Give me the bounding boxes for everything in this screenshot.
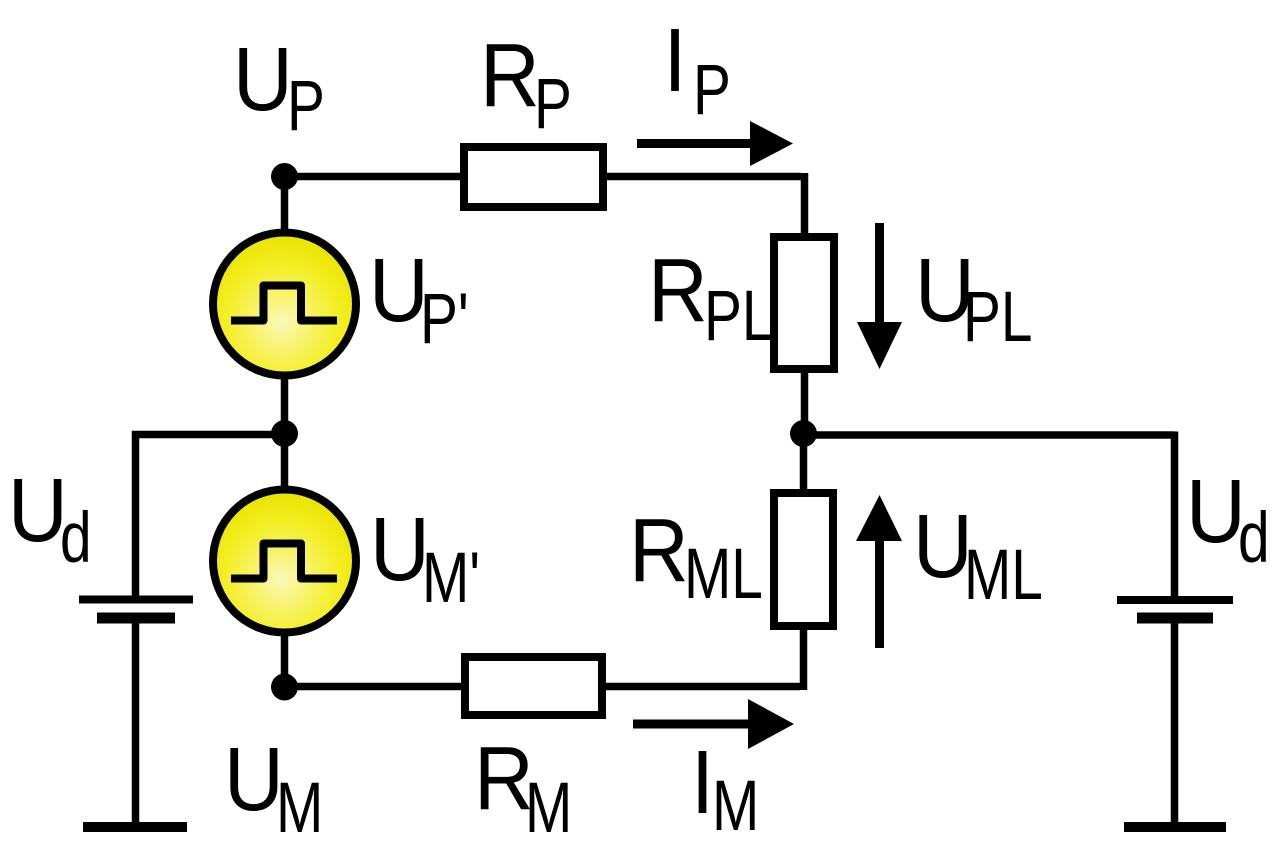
resistor RM [465, 657, 602, 715]
wire node Up to source UP' [281, 177, 289, 236]
arrow IP [637, 139, 755, 148]
svg-text:R: R [629, 501, 689, 601]
svg-text:PL: PL [963, 277, 1032, 357]
wire node B to right rail [804, 432, 1175, 601]
svg-text:M: M [525, 768, 572, 848]
resistor RP [464, 147, 603, 207]
svg-text:U: U [224, 730, 284, 830]
battery left short plate [97, 613, 175, 624]
label UP' [369, 241, 429, 341]
pulse symbol UP' [231, 286, 337, 321]
svg-text:U: U [233, 30, 293, 130]
svg-text:PL: PL [704, 276, 773, 356]
svg-text:U: U [8, 461, 68, 561]
label RPL [648, 241, 708, 341]
label UPL [915, 241, 975, 341]
svg-text:P': P' [420, 279, 469, 359]
source UP' [213, 233, 356, 376]
wire source UP' to node A [281, 374, 289, 433]
battery left bottom plate [83, 822, 187, 832]
label IM [691, 733, 714, 833]
svg-text:P: P [693, 50, 731, 130]
label UM' [370, 500, 430, 600]
label UM [224, 730, 284, 830]
node UP [271, 163, 298, 190]
battery right bottom plate [1124, 822, 1226, 832]
arrow UPL down [875, 223, 884, 335]
label RML [629, 501, 689, 601]
wire RML to node B [800, 433, 808, 493]
svg-text:I: I [691, 733, 714, 833]
wire node UM to resistor RM [285, 683, 466, 691]
svg-text:M: M [276, 768, 323, 848]
label RM [474, 729, 534, 829]
svg-text:R: R [648, 241, 708, 341]
label RP [480, 26, 540, 126]
svg-text:P: P [287, 66, 325, 146]
node A [271, 420, 298, 447]
pulse symbol UM' [231, 544, 337, 579]
svg-text:M: M [712, 766, 759, 846]
wire RM to RML [602, 626, 804, 690]
wire battery left to bottom terminal [132, 623, 140, 827]
label Ud left [8, 461, 68, 561]
battery right long plate [1117, 596, 1233, 604]
wire battery right to bottom terminal [1171, 623, 1179, 827]
svg-text:ML: ML [684, 534, 763, 614]
label Ud right [1186, 462, 1246, 562]
arrow IM [633, 720, 750, 729]
svg-text:ML: ML [964, 535, 1043, 615]
source UM' [213, 490, 356, 633]
svg-text:M': M' [422, 538, 480, 618]
svg-text:P: P [534, 64, 572, 144]
svg-text:U: U [1186, 462, 1246, 562]
svg-text:d: d [60, 498, 92, 578]
battery left long plate [79, 596, 193, 604]
label UP [233, 30, 293, 130]
resistor RML [774, 493, 833, 626]
battery right short plate [1137, 613, 1213, 624]
svg-text:I: I [664, 11, 687, 111]
arrow UML up [875, 535, 884, 648]
wire RP to RPL [603, 173, 805, 237]
svg-text:d: d [1238, 498, 1270, 578]
label IP [664, 11, 687, 111]
wire RPL to node B [801, 369, 809, 433]
wire node Up to resistor RP [285, 173, 465, 181]
resistor RPL [774, 237, 834, 369]
wire node A to source UM' [281, 433, 289, 492]
svg-text:U: U [370, 500, 430, 600]
node UM [271, 674, 298, 701]
svg-text:R: R [480, 26, 540, 126]
wire node A to left rail [136, 435, 285, 600]
node B [790, 420, 817, 447]
label UML [913, 497, 973, 597]
wire source UM' to node UM [281, 631, 289, 687]
